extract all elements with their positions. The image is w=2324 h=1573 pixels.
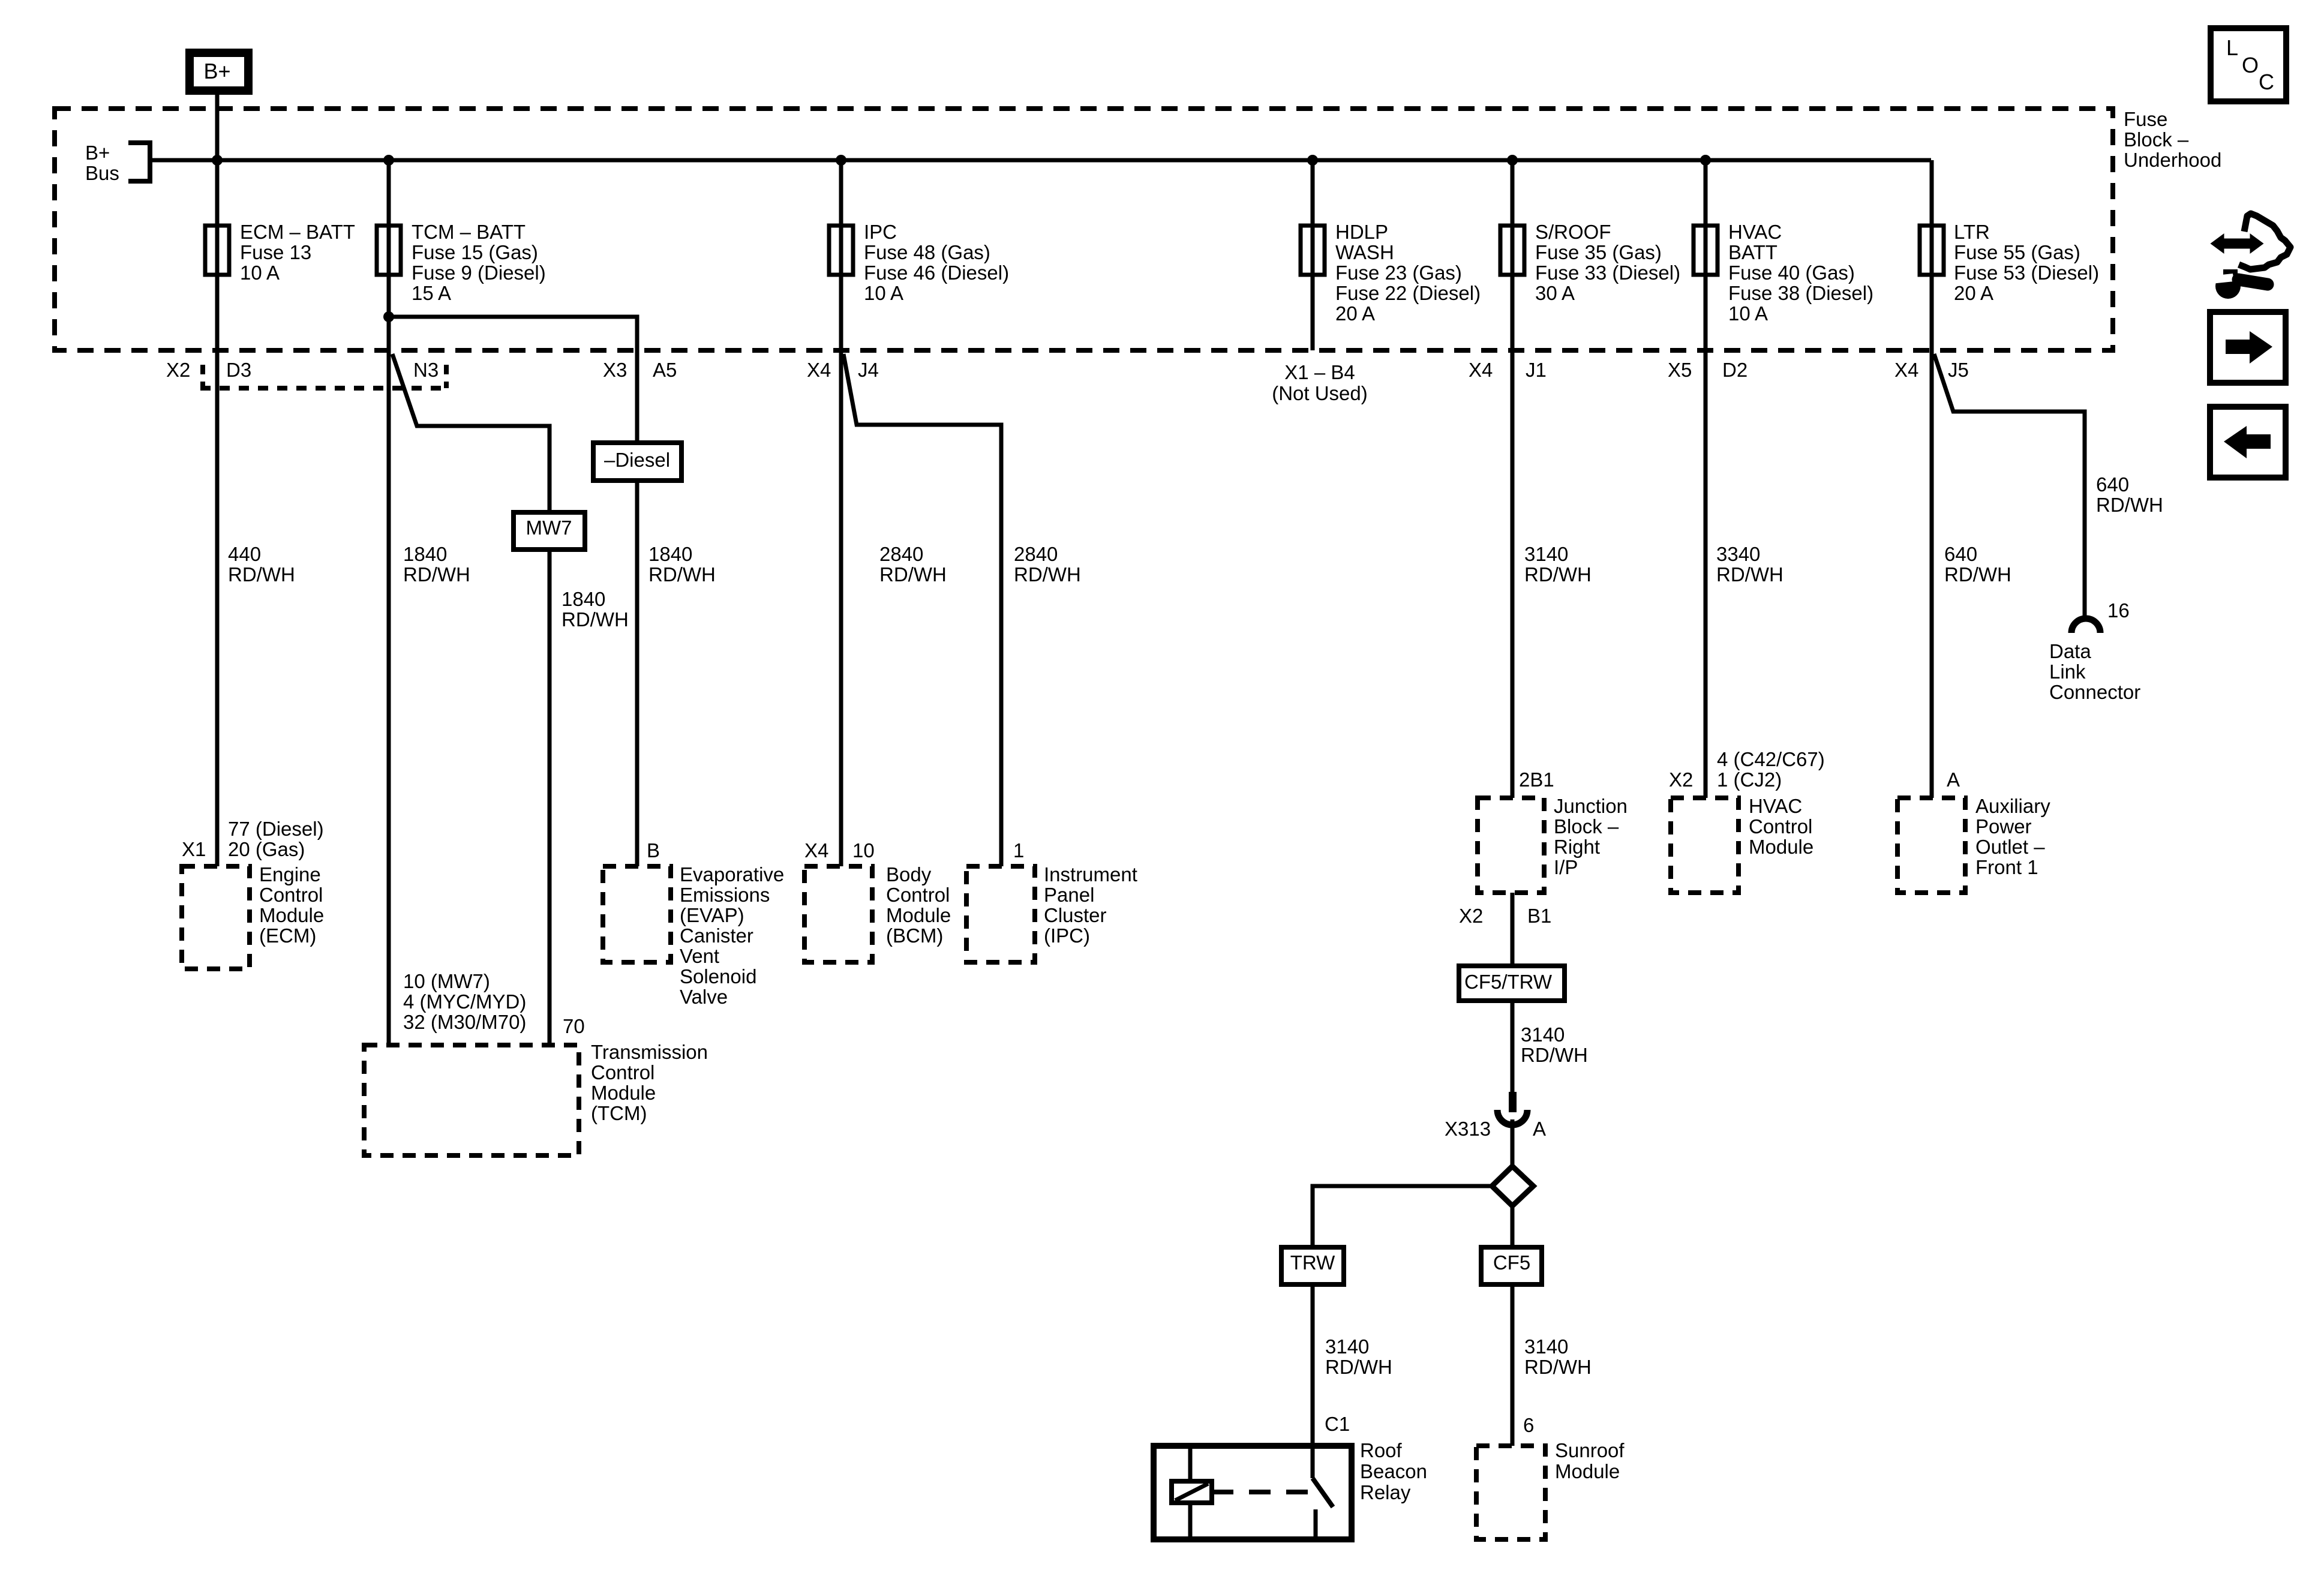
svg-text:X1: X1: [182, 838, 206, 860]
svg-text:Vent: Vent: [680, 945, 719, 967]
node HVAC fuse junction: [1700, 155, 1711, 166]
svg-text:Underhood: Underhood: [2124, 149, 2221, 171]
svg-text:RD/WH: RD/WH: [1716, 563, 1783, 586]
wire label 1840 RD/WH (A5): [648, 543, 716, 586]
svg-text:A: A: [1947, 769, 1960, 791]
fuse HDLP WASH: [1301, 221, 1481, 325]
svg-text:HDLP: HDLP: [1335, 221, 1388, 243]
module HVAC dashed box: [1671, 798, 1739, 893]
svg-text:Module: Module: [1555, 1460, 1620, 1482]
wire B+ feed: [215, 95, 220, 226]
svg-text:Instrument: Instrument: [1044, 863, 1137, 885]
label Auxiliary Power Outlet Front 1: [1975, 795, 2050, 878]
icon hand with wrench: [2210, 214, 2290, 299]
svg-text:Fuse 38 (Diesel): Fuse 38 (Diesel): [1728, 282, 1873, 304]
label Body Control Module (BCM): [886, 863, 951, 947]
svg-text:2840: 2840: [879, 543, 923, 565]
wire TRW to relay: [1311, 1284, 1315, 1446]
module EVAP dashed box: [603, 866, 671, 962]
svg-text:WASH: WASH: [1335, 241, 1394, 263]
svg-text:Engine: Engine: [259, 863, 321, 885]
svg-text:2B1: 2B1: [1519, 769, 1554, 791]
label EVAP canister vent solenoid valve: [680, 863, 784, 1008]
svg-text:Fuse 46 (Diesel): Fuse 46 (Diesel): [864, 262, 1009, 284]
svg-text:16: 16: [2107, 599, 2130, 622]
svg-text:3140: 3140: [1325, 1335, 1369, 1358]
svg-text:Module: Module: [259, 904, 324, 926]
svg-text:Control: Control: [886, 884, 950, 906]
module aux power outlet dashed box: [1897, 798, 1965, 893]
splice diamond: [1492, 1166, 1533, 1206]
wire X313 to diamond: [1511, 1119, 1515, 1166]
svg-text:(BCM): (BCM): [886, 924, 943, 947]
svg-text:10 (MW7): 10 (MW7): [403, 970, 490, 992]
svg-text:B+: B+: [203, 59, 230, 83]
module TCM dashed box: [364, 1045, 579, 1155]
svg-text:CF5: CF5: [1493, 1251, 1530, 1274]
svg-text:X2: X2: [1459, 905, 1483, 927]
connector X313 upper stub: [1509, 1092, 1517, 1112]
svg-text:RD/WH: RD/WH: [1521, 1044, 1588, 1066]
svg-text:(ECM): (ECM): [259, 924, 316, 947]
fuse ECM-BATT Fuse 13: [205, 221, 355, 284]
svg-text:D2: D2: [1722, 359, 1747, 381]
svg-text:4 (MYC/MYD): 4 (MYC/MYD): [403, 990, 526, 1013]
svg-text:ECM – BATT: ECM – BATT: [240, 221, 355, 243]
wire label 1840 RD/WH (N3): [403, 543, 470, 586]
label Junction Block Right I/P: [1554, 795, 1628, 878]
svg-text:Data: Data: [2049, 640, 2091, 662]
label Sunroof Module: [1555, 1439, 1625, 1482]
label Data Link Connector: [2049, 640, 2140, 703]
wire label 2840 RD/WH (IPC): [1014, 543, 1081, 586]
svg-text:Front 1: Front 1: [1975, 856, 2038, 878]
svg-text:RD/WH: RD/WH: [2096, 494, 2163, 516]
wire LTR fuse drop: [1930, 160, 1934, 798]
svg-text:70: 70: [563, 1015, 585, 1037]
relay coil lower wire: [1188, 1503, 1193, 1536]
svg-text:RD/WH: RD/WH: [879, 563, 947, 586]
svg-text:X2: X2: [166, 359, 190, 381]
svg-text:RD/WH: RD/WH: [648, 563, 716, 586]
svg-text:RD/WH: RD/WH: [403, 563, 470, 586]
svg-text:Canister: Canister: [680, 924, 753, 947]
svg-text:Sunroof: Sunroof: [1555, 1439, 1625, 1461]
module ECM dashed box: [182, 866, 250, 969]
wire B+ bus: [150, 158, 1931, 163]
svg-text:Fuse: Fuse: [2124, 108, 2167, 130]
svg-text:Fuse 35 (Gas): Fuse 35 (Gas): [1535, 241, 1662, 263]
svg-text:L: L: [2226, 35, 2238, 60]
svg-text:Outlet –: Outlet –: [1975, 836, 2045, 858]
wire CF5/TRW to X313: [1511, 1001, 1515, 1093]
svg-text:1: 1: [1013, 839, 1024, 861]
svg-text:X2: X2: [1669, 769, 1693, 791]
wire label 3340 RD/WH: [1716, 543, 1783, 586]
relay switch common wire: [1311, 1446, 1315, 1478]
label Instrument Panel Cluster (IPC): [1044, 863, 1137, 947]
svg-text:Body: Body: [886, 863, 932, 885]
wire diamond to TRW: [1313, 1186, 1492, 1247]
wire label 1840 RD/WH (MW7): [562, 588, 629, 631]
svg-text:Control: Control: [259, 884, 323, 906]
fuse S/ROOF: [1500, 221, 1680, 304]
relay coil feed wire: [1188, 1446, 1193, 1481]
wire ECM fuse output: [215, 226, 220, 866]
svg-text:Link: Link: [2049, 661, 2086, 683]
svg-text:32 (M30/M70): 32 (M30/M70): [403, 1011, 526, 1033]
icon arrow left box: [2210, 407, 2286, 478]
relay actuator dashed link: [1212, 1490, 1311, 1494]
node IPC fuse junction: [836, 155, 846, 166]
svg-text:J5: J5: [1948, 359, 1969, 381]
wire EVAP feed horizontal: [389, 317, 637, 443]
node TCM fuse junction: [383, 155, 394, 166]
svg-text:Control: Control: [1749, 815, 1812, 837]
splice CF5/TRW: [1459, 966, 1565, 1001]
wire junction block to CF5/TRW: [1511, 893, 1515, 966]
svg-text:Junction: Junction: [1554, 795, 1628, 817]
B+ Bus bracket: [128, 143, 150, 181]
wire label 2840 RD/WH (BCM): [879, 543, 947, 586]
svg-text:LTR: LTR: [1954, 221, 1990, 243]
svg-text:Fuse 13: Fuse 13: [240, 241, 311, 263]
svg-text:10 A: 10 A: [240, 262, 280, 284]
svg-text:X5: X5: [1668, 359, 1692, 381]
wire diamond to CF5: [1511, 1206, 1515, 1247]
module junction block dashed box: [1478, 798, 1544, 893]
svg-text:C1: C1: [1325, 1413, 1350, 1435]
wire CF5 to sunroof: [1511, 1284, 1515, 1446]
svg-text:3140: 3140: [1524, 1335, 1568, 1358]
wire HDLP fuse drop: [1311, 160, 1315, 350]
svg-text:Auxiliary: Auxiliary: [1975, 795, 2050, 817]
svg-text:(EVAP): (EVAP): [680, 904, 744, 926]
svg-text:B1: B1: [1527, 905, 1551, 927]
svg-text:10: 10: [852, 839, 875, 861]
relay Roof Beacon box: [1154, 1446, 1352, 1539]
wire IPC branch diagonal: [843, 354, 1001, 866]
svg-text:Panel: Panel: [1044, 884, 1094, 906]
svg-text:Fuse 22 (Diesel): Fuse 22 (Diesel): [1335, 282, 1481, 304]
svg-text:Cluster: Cluster: [1044, 904, 1107, 926]
svg-text:Fuse 40 (Gas): Fuse 40 (Gas): [1728, 262, 1855, 284]
svg-text:1840: 1840: [648, 543, 692, 565]
svg-text:15 A: 15 A: [412, 282, 451, 304]
svg-text:J4: J4: [858, 359, 879, 381]
svg-text:(TCM): (TCM): [591, 1102, 647, 1124]
node HDLP fuse junction: [1307, 155, 1318, 166]
label Transmission Control Module (TCM): [591, 1041, 708, 1124]
svg-text:Fuse 55 (Gas): Fuse 55 (Gas): [1954, 241, 2080, 263]
relay switch lower contact: [1314, 1509, 1318, 1536]
svg-text:1840: 1840: [562, 588, 605, 610]
wire label 440 RD/WH: [228, 543, 295, 586]
label Engine Control Module (ECM): [259, 863, 324, 947]
svg-text:Transmission: Transmission: [591, 1041, 708, 1063]
fuse HVAC BATT: [1694, 221, 1873, 325]
svg-text:Control: Control: [591, 1061, 654, 1083]
svg-text:X4: X4: [1469, 359, 1493, 381]
wire MW7 branch diagonal: [392, 354, 550, 512]
svg-text:Fuse 53 (Diesel): Fuse 53 (Diesel): [1954, 262, 2099, 284]
label Roof Beacon Relay: [1360, 1439, 1427, 1503]
svg-text:Fuse 9 (Diesel): Fuse 9 (Diesel): [412, 262, 546, 284]
svg-text:MW7: MW7: [526, 517, 572, 539]
svg-text:Right: Right: [1554, 836, 1600, 858]
svg-text:X313: X313: [1445, 1118, 1491, 1140]
fuse block label: [2124, 108, 2221, 171]
svg-text:3140: 3140: [1524, 543, 1568, 565]
svg-text:C: C: [2259, 70, 2274, 94]
svg-text:Roof: Roof: [1360, 1439, 1403, 1461]
svg-text:Beacon: Beacon: [1360, 1460, 1427, 1482]
label HVAC Control Module: [1749, 795, 1813, 858]
wire HVAC fuse drop: [1704, 160, 1708, 798]
svg-text:O: O: [2242, 53, 2259, 77]
splice MW7: [514, 512, 585, 550]
svg-text:Fuse 23 (Gas): Fuse 23 (Gas): [1335, 262, 1462, 284]
node TCM EVAP junction: [383, 311, 394, 322]
svg-text:RD/WH: RD/WH: [562, 608, 629, 631]
svg-text:TRW: TRW: [1290, 1251, 1335, 1274]
wire label 640 RD/WH (J5): [1944, 543, 2011, 586]
relay switch blade: [1313, 1478, 1333, 1507]
connector DLC socket arc: [2071, 619, 2100, 633]
wire TCM fuse drop: [387, 160, 391, 1045]
svg-text:10 A: 10 A: [1728, 302, 1768, 325]
svg-text:A: A: [1533, 1118, 1546, 1140]
svg-text:X4: X4: [807, 359, 831, 381]
fuse block underhood dashed box: [55, 109, 2113, 350]
pin label X1-B4 Not Used: [1272, 361, 1368, 404]
fuse IPC: [829, 221, 1009, 304]
wire label 3140 RD/WH (B1 leg): [1521, 1023, 1588, 1066]
svg-text:RD/WH: RD/WH: [1944, 563, 2011, 586]
svg-text:I/P: I/P: [1554, 856, 1578, 878]
svg-text:BATT: BATT: [1728, 241, 1777, 263]
svg-text:Emissions: Emissions: [680, 884, 770, 906]
wire label 3140 RD/WH (TRW leg): [1325, 1335, 1392, 1378]
node S/ROOF fuse junction: [1507, 155, 1518, 166]
svg-text:X4: X4: [1894, 359, 1918, 381]
svg-text:Module: Module: [1749, 836, 1813, 858]
wire S/ROOF fuse drop: [1511, 160, 1515, 798]
svg-text:HVAC: HVAC: [1749, 795, 1802, 817]
B+ power symbol: [190, 53, 248, 91]
svg-text:X4: X4: [804, 839, 828, 861]
connector X2-D3-N3 dashed bracket: [200, 365, 449, 388]
svg-text:J1: J1: [1526, 359, 1547, 381]
svg-text:640: 640: [1944, 543, 1977, 565]
svg-text:440: 440: [228, 543, 261, 565]
svg-text:RD/WH: RD/WH: [1014, 563, 1081, 586]
svg-text:Evaporative: Evaporative: [680, 863, 784, 885]
icon arrow right box: [2210, 312, 2286, 383]
svg-text:30 A: 30 A: [1535, 282, 1575, 304]
svg-text:RD/WH: RD/WH: [1325, 1356, 1392, 1378]
svg-text:Bus: Bus: [85, 162, 119, 184]
svg-text:D3: D3: [226, 359, 251, 381]
svg-text:10 A: 10 A: [864, 282, 903, 304]
svg-text:N3: N3: [413, 359, 439, 381]
svg-text:A5: A5: [653, 359, 677, 381]
fuse LTR: [1920, 221, 2099, 304]
svg-text:RD/WH: RD/WH: [1524, 1356, 1592, 1378]
svg-text:Module: Module: [591, 1082, 656, 1104]
node B+ bus junction: [212, 155, 223, 166]
wire label 3140 RD/WH (CF5 leg): [1524, 1335, 1592, 1378]
fuse TCM-BATT: [377, 221, 546, 304]
module BCM dashed box: [804, 866, 872, 962]
module IPC dashed box: [966, 866, 1035, 962]
svg-text:Relay: Relay: [1360, 1481, 1411, 1503]
svg-text:CF5/TRW: CF5/TRW: [1464, 971, 1553, 993]
module sunroof dashed box: [1476, 1446, 1545, 1539]
splice -Diesel: [593, 443, 681, 481]
B+ Bus label: [85, 142, 119, 184]
splice TRW: [1281, 1247, 1344, 1284]
svg-text:Fuse 33 (Diesel): Fuse 33 (Diesel): [1535, 262, 1680, 284]
svg-text:3340: 3340: [1716, 543, 1760, 565]
svg-text:TCM – BATT: TCM – BATT: [412, 221, 526, 243]
svg-text:(Not Used): (Not Used): [1272, 382, 1368, 404]
svg-text:Valve: Valve: [680, 986, 728, 1008]
svg-text:20 (Gas): 20 (Gas): [228, 838, 305, 860]
wire DLC branch diagonal: [1934, 354, 2085, 619]
svg-text:3140: 3140: [1521, 1023, 1565, 1046]
svg-text:IPC: IPC: [864, 221, 897, 243]
svg-text:B: B: [647, 839, 660, 861]
svg-text:HVAC: HVAC: [1728, 221, 1782, 243]
svg-text:640: 640: [2096, 473, 2129, 496]
svg-text:Fuse 48 (Gas): Fuse 48 (Gas): [864, 241, 990, 263]
svg-text:1 (CJ2): 1 (CJ2): [1717, 769, 1782, 791]
svg-text:B+: B+: [85, 142, 110, 164]
relay coil diagonal: [1175, 1484, 1208, 1500]
svg-text:X3: X3: [603, 359, 627, 381]
svg-text:(IPC): (IPC): [1044, 924, 1090, 947]
wire label 640 RD/WH (DLC): [2096, 473, 2163, 516]
svg-text:Fuse 15 (Gas): Fuse 15 (Gas): [412, 241, 538, 263]
splice CF5: [1481, 1247, 1542, 1284]
svg-text:Solenoid: Solenoid: [680, 965, 756, 987]
svg-text:RD/WH: RD/WH: [1524, 563, 1592, 586]
svg-text:Block –: Block –: [1554, 815, 1619, 837]
svg-text:20 A: 20 A: [1335, 302, 1375, 325]
svg-text:–Diesel: –Diesel: [604, 449, 670, 471]
wire EVAP drop below Diesel splice: [635, 481, 639, 866]
wire MW7 to TCM: [548, 550, 552, 1045]
svg-text:77 (Diesel): 77 (Diesel): [228, 818, 324, 840]
svg-text:20 A: 20 A: [1954, 282, 1993, 304]
connector X313 socket arc: [1497, 1110, 1527, 1125]
svg-text:Power: Power: [1975, 815, 2032, 837]
svg-text:Module: Module: [886, 904, 951, 926]
relay coil: [1172, 1481, 1212, 1503]
wire label 3140 RD/WH (J1): [1524, 543, 1592, 586]
LOC reference box: [2211, 28, 2286, 101]
svg-text:X1 – B4: X1 – B4: [1284, 361, 1355, 383]
svg-text:6: 6: [1523, 1414, 1534, 1436]
svg-text:RD/WH: RD/WH: [228, 563, 295, 586]
svg-text:S/ROOF: S/ROOF: [1535, 221, 1611, 243]
svg-text:2840: 2840: [1014, 543, 1058, 565]
svg-text:Connector: Connector: [2049, 681, 2140, 703]
svg-text:Block –: Block –: [2124, 128, 2189, 151]
svg-text:4 (C42/C67): 4 (C42/C67): [1717, 748, 1825, 770]
svg-text:1840: 1840: [403, 543, 447, 565]
wire IPC fuse drop to BCM: [839, 160, 843, 866]
